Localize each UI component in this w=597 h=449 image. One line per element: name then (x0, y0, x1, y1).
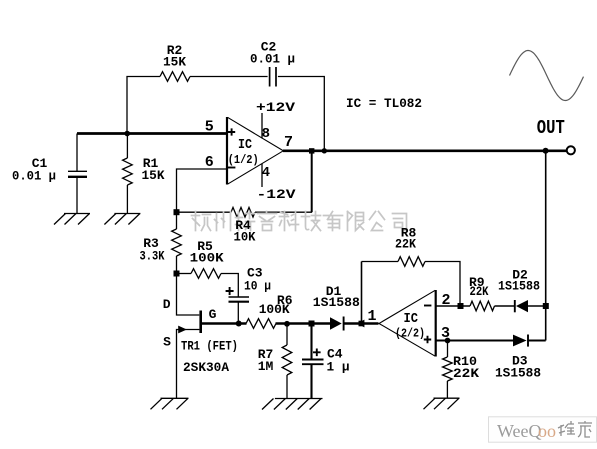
svg-text:+12V: +12V (256, 100, 295, 115)
svg-text:2: 2 (441, 292, 450, 309)
svg-text:10 μ: 10 μ (244, 279, 271, 294)
svg-text:1 μ: 1 μ (327, 360, 350, 375)
svg-text:IC: IC (238, 137, 252, 153)
svg-text:22K: 22K (470, 284, 489, 299)
svg-text:0.01 μ: 0.01 μ (250, 52, 295, 67)
svg-text:2SK30A: 2SK30A (183, 360, 229, 375)
svg-text:1S1588: 1S1588 (495, 366, 541, 381)
svg-text:OUT: OUT (537, 117, 565, 139)
svg-text:1M: 1M (258, 359, 274, 374)
svg-text:D: D (163, 297, 171, 312)
svg-text:3: 3 (441, 325, 450, 342)
svg-text:22K: 22K (395, 236, 416, 251)
svg-text:1S1588: 1S1588 (498, 278, 540, 293)
svg-text:6: 6 (205, 154, 214, 171)
svg-text:10K: 10K (234, 230, 256, 245)
svg-text:G: G (209, 307, 217, 322)
svg-text:(1/2): (1/2) (228, 153, 259, 167)
svg-text:oo: oo (538, 421, 556, 441)
svg-text:TR1 (FET): TR1 (FET) (181, 339, 238, 354)
svg-text:S: S (163, 335, 171, 350)
svg-text:0.01 μ: 0.01 μ (12, 169, 56, 184)
svg-text:4: 4 (262, 165, 270, 181)
svg-text:100K: 100K (190, 251, 224, 266)
svg-text:1: 1 (367, 308, 376, 325)
svg-text:IC: IC (404, 311, 419, 327)
svg-text:1S1588: 1S1588 (313, 295, 360, 310)
svg-text:7: 7 (284, 134, 293, 151)
svg-text:100K: 100K (259, 302, 290, 317)
svg-text:-12V: -12V (257, 187, 296, 202)
svg-text:15K: 15K (163, 54, 186, 69)
svg-text:15K: 15K (142, 168, 165, 183)
svg-text:WeeQ: WeeQ (497, 421, 542, 441)
svg-text:3.3K: 3.3K (140, 249, 165, 264)
svg-text:(2/2): (2/2) (395, 327, 425, 341)
svg-text:IC = TL082: IC = TL082 (346, 96, 422, 111)
svg-text:8: 8 (262, 126, 270, 142)
svg-text:22K: 22K (453, 366, 479, 381)
svg-text:5: 5 (205, 119, 214, 136)
